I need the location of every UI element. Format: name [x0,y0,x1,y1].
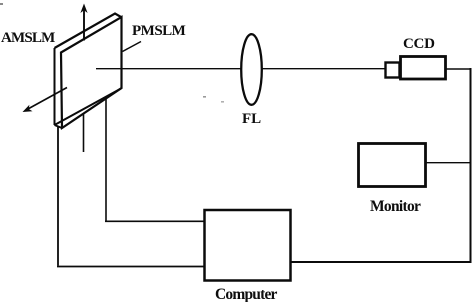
wire: short stub below panel [83,114,85,152]
SLM back panel left edge [54,48,56,125]
scan speck top-left corner [0,3,3,5]
wire: monitor to right vertical [426,162,471,164]
SLM back panel top edge (AMSLM) [55,14,122,49]
SLM back panel bottom edge [55,89,122,129]
label Monitor [370,199,420,215]
label FL [242,112,261,127]
label AMSLM [1,31,55,46]
CCD lens mount small square [386,63,400,78]
scan speck near lens [203,96,206,98]
wire: optical axis panel to lens [96,68,242,70]
wire: bottom-left horizontal to computer [57,266,205,268]
down-left arrow from panel [27,88,67,110]
label Computer [215,287,277,302]
wire: SLM left lead down [57,127,59,266]
up arrow through panel [83,8,85,41]
label PMSLM [132,24,185,39]
SLM front panel face (PMSLM) [61,17,122,128]
wire: right vertical down [470,68,472,262]
wire: CCD to right vertical [446,68,471,70]
wire: bottom horizontal to computer [291,261,472,263]
lens FL ellipse [241,34,262,105]
PMSLM pointer line [123,42,142,52]
wire: SLM second lead down [105,99,107,221]
CCD camera body [401,57,446,80]
scan speck 2 [221,101,224,103]
computer box [205,210,291,281]
label CCD [403,37,435,52]
wire: optical axis lens to CCD [262,68,385,70]
monitor box [359,144,426,187]
wire: upper-left horizontal to computer [105,220,205,222]
